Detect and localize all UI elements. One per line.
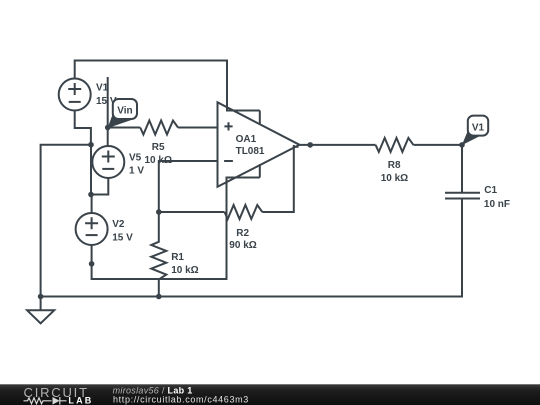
wire V2 bottom to op-amp V- supply — [92, 178, 260, 280]
footer logo diode triangle — [53, 397, 60, 405]
V1 minus symbol — [69, 101, 81, 103]
wire C1 bottom to ground rail — [41, 199, 462, 297]
svg-text:V1: V1 — [472, 122, 485, 133]
wire R2 right up to output — [262, 145, 294, 212]
svg-text:Vin: Vin — [117, 106, 132, 117]
capacitor C1 plates — [445, 193, 480, 199]
wire from V1 bottom to ground node — [75, 111, 91, 145]
junction dot ground rail left — [38, 294, 44, 300]
wire stub above Vin node down to V5 top — [107, 77, 109, 146]
wire R8 right to node V1 — [413, 144, 462, 146]
wire V5 bottom to junction — [91, 178, 108, 194]
svg-text:R5: R5 — [152, 142, 165, 153]
svg-text:http://circuitlab.com/c4463m3: http://circuitlab.com/c4463m3 — [113, 395, 249, 405]
svg-text:TL081: TL081 — [236, 146, 265, 157]
wire ground stub — [40, 297, 42, 311]
V1 plus symbol — [68, 83, 81, 95]
voltage source V2 circle — [76, 213, 108, 245]
svg-text:V2: V2 — [112, 219, 125, 230]
footer logo circuit squiggle — [24, 397, 67, 405]
svg-text:1 V: 1 V — [129, 165, 144, 176]
junction dot feedback node — [156, 209, 162, 215]
V5 minus symbol — [102, 168, 114, 170]
V2 minus symbol — [86, 234, 98, 236]
op-amp plus input symbol — [224, 122, 232, 130]
node flag Vin tail — [108, 114, 134, 129]
svg-text:R2: R2 — [236, 228, 249, 239]
svg-text:10 kΩ: 10 kΩ — [171, 265, 198, 276]
junction dot output node V1 — [459, 142, 465, 148]
resistor R1 vertical with stubs — [151, 212, 166, 297]
ground symbol — [27, 310, 54, 323]
op-amp minus input symbol — [224, 160, 233, 162]
svg-text:10 nF: 10 nF — [484, 199, 510, 210]
wire junction to V2 top — [91, 195, 93, 214]
wire feedback node to R2 left — [159, 211, 225, 213]
wire op-amp output to R8 left — [299, 144, 376, 146]
junction dot Vin node — [105, 125, 111, 131]
V5 plus symbol — [102, 151, 115, 163]
resistor R2 zigzag — [225, 205, 263, 219]
wire node V1 down to C1 top — [461, 145, 463, 192]
voltage source V5 circle — [92, 146, 124, 178]
resistor R5 zigzag — [140, 121, 178, 135]
junction dot V1- ground node — [88, 142, 94, 148]
node flag V1 tail — [462, 131, 481, 146]
wire ground branch left and down — [41, 145, 91, 297]
svg-text:OA1: OA1 — [236, 134, 257, 145]
svg-text:V1: V1 — [96, 83, 109, 94]
svg-text:10 kΩ: 10 kΩ — [381, 173, 408, 184]
V2 plus symbol — [85, 217, 98, 229]
junction dot V2 bottom stub — [89, 261, 95, 267]
svg-text:15 V: 15 V — [112, 232, 133, 243]
wire node V1- to V5- — [90, 145, 92, 195]
junction dot R1 bottom on rail — [156, 294, 162, 300]
node flag V1 box — [468, 116, 488, 136]
svg-text:R8: R8 — [388, 160, 401, 171]
junction dot V5- node — [88, 192, 94, 198]
junction dot op-amp output — [307, 142, 313, 148]
op-amp V+ pin stub — [259, 111, 261, 125]
resistor R8 zigzag — [376, 138, 414, 152]
wire op-amp - input to feedback node — [159, 161, 218, 212]
op-amp V- pin stub — [259, 164, 261, 177]
wire R5 right to op-amp + input — [178, 127, 218, 129]
svg-text:90 kΩ: 90 kΩ — [229, 240, 256, 251]
voltage source V1 circle — [59, 79, 91, 111]
op-amp OA1 triangle — [218, 102, 300, 187]
wire Vin node to R5 left — [108, 127, 141, 129]
svg-text:C1: C1 — [484, 185, 497, 196]
svg-text:10 kΩ: 10 kΩ — [145, 155, 172, 166]
footer bar — [0, 384, 540, 405]
svg-text:LAB: LAB — [68, 395, 93, 405]
svg-text:R1: R1 — [171, 252, 184, 263]
node flag Vin box — [113, 99, 137, 119]
wire output notch stub — [294, 146, 299, 148]
wire from V1 top to op-amp V+ supply — [75, 61, 260, 111]
svg-text:V5: V5 — [129, 152, 142, 163]
